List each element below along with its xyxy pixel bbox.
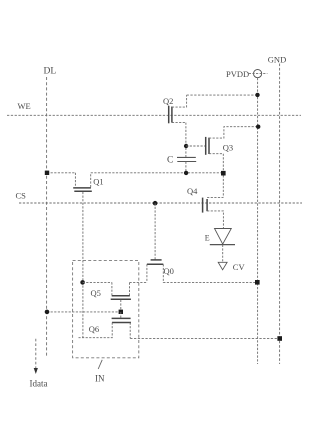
junction PVDD rail / Q0 wire — [255, 280, 260, 285]
junction PVDD rail / Q3 drain — [256, 125, 260, 129]
transistor Q2 — [169, 95, 187, 123]
junction Q1-gate wire / Q5 lead — [80, 280, 85, 285]
svg-text:Q1: Q1 — [93, 177, 103, 187]
wire Q5 right lead to Q0 — [130, 281, 147, 283]
svg-text:C: C — [167, 155, 173, 165]
wire DL to Q5/Q6 gates — [47, 311, 121, 313]
transistor Q0 — [147, 260, 257, 283]
svg-text:CV: CV — [233, 262, 246, 272]
svg-text:Q4: Q4 — [187, 186, 198, 196]
node DL (data line, vertical dashed) — [46, 77, 48, 358]
wire Q2 source down to node B — [185, 123, 187, 158]
junction PVDD rail / Q2 drain — [255, 93, 259, 97]
Idata current arrow — [34, 339, 38, 374]
terminal CV (open triangle) — [218, 262, 227, 270]
wire Q5 left lead — [83, 281, 112, 283]
svg-text:Q0: Q0 — [164, 266, 174, 276]
node WE (write enable row line) — [7, 114, 301, 116]
svg-text:IN: IN — [95, 374, 105, 384]
svg-text:GND: GND — [268, 55, 286, 65]
junction node B (Q2 source / Q3 gate / capacitor C) — [184, 144, 188, 148]
transistor Q1 — [73, 173, 92, 192]
svg-text:PVDD: PVDD — [226, 69, 249, 79]
svg-text:Q6: Q6 — [89, 324, 99, 334]
node GND (vertical supply line) — [279, 64, 281, 365]
transistor Q3 — [206, 127, 259, 155]
wire Q2 drain to PVDD rail — [187, 94, 258, 96]
junction GND rail / bottom wire — [277, 336, 282, 341]
svg-text:DL: DL — [44, 67, 57, 77]
svg-text:Idata: Idata — [30, 378, 48, 388]
junction node A / capacitor C — [184, 171, 188, 175]
wire node A horizontal (Q1 drain to Q3/Q4) — [91, 172, 224, 174]
diode E (EL element) — [210, 229, 235, 262]
junction DL / Q1 source wire — [45, 171, 49, 175]
wire CS to Q0 gate — [154, 203, 156, 260]
leader line to IN label — [98, 360, 102, 369]
svg-text:E: E — [205, 233, 210, 242]
node CS (row line) — [19, 202, 302, 204]
power terminal PVDD (circle symbol with lead) — [254, 70, 262, 78]
junction DL / gate wire — [45, 310, 50, 315]
svg-text:Q2: Q2 — [163, 96, 173, 106]
svg-text:Q5: Q5 — [91, 288, 101, 298]
svg-text:Q3: Q3 — [223, 142, 233, 152]
wire DL to Q1 source — [47, 172, 75, 174]
wire Q1 gate down to Q5/Q6 left leads — [82, 192, 84, 338]
transistor Q4 — [203, 197, 224, 228]
dashed box IN (current mirror block) — [73, 261, 139, 358]
capacitor C — [177, 157, 196, 172]
svg-text:CS: CS — [16, 191, 27, 201]
wire node B to Q3 gate — [186, 145, 206, 147]
wire PVDD vertical rail — [257, 78, 259, 364]
transistor Q6 — [79, 312, 132, 339]
junction CS / Q0 gate — [153, 201, 158, 206]
junction Q5 gate / Q6 gate — [119, 310, 123, 314]
svg-text:WE: WE — [18, 101, 31, 111]
junction node A / Q3-Q4 branch — [221, 171, 226, 176]
wire Q3 source to Q4 drain — [222, 154, 224, 198]
transistor Q5 — [111, 282, 131, 311]
wire Q6 source to GND rail — [130, 337, 279, 339]
